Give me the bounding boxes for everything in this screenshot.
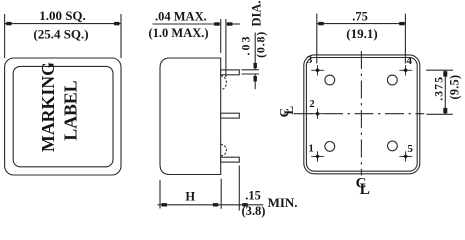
arrow H left <box>162 203 167 206</box>
svg-text:1.00 SQ.: 1.00 SQ. <box>39 8 86 23</box>
arrow .03 upper <box>254 63 257 68</box>
arrow 1.00 SQ left <box>6 22 11 25</box>
svg-text:L: L <box>281 106 296 115</box>
horizontal centerline <box>294 113 425 115</box>
dimension H extension line right <box>220 179 222 209</box>
pin 4 crosshair <box>399 65 412 75</box>
pin hole circle bottom-left <box>325 142 335 152</box>
dimension .75 line <box>317 23 406 25</box>
svg-text:.15: .15 <box>245 189 261 203</box>
dimension 1.00 SQ extension line right <box>120 14 122 58</box>
dimension 1.00 SQ line <box>5 23 121 25</box>
dimension .03 extension tick pin bottom <box>242 73 260 75</box>
arrow .04 right <box>227 22 232 25</box>
dimension H and .15 line <box>158 204 264 206</box>
hidden standoff arc above bottom pin <box>221 144 227 155</box>
arrow .04 left <box>214 22 219 25</box>
svg-text:.04 MAX.: .04 MAX. <box>155 10 207 24</box>
pin 5 crosshair <box>399 151 412 161</box>
pin hole circle bottom-right <box>388 141 398 151</box>
svg-text:(19.1): (19.1) <box>346 26 377 41</box>
svg-text:.75: .75 <box>352 9 368 23</box>
pin 1 crosshair <box>311 151 324 161</box>
dimension 1.00 SQ extension line left <box>4 14 6 58</box>
arrow .375 top <box>443 71 447 76</box>
dimension H extension line left <box>159 180 161 209</box>
dimension .04 MAX extension line (standoff) <box>225 19 227 77</box>
arrow .75 right <box>399 22 404 25</box>
side view body outline <box>160 58 221 175</box>
dimension .03 line upper segment <box>254 33 256 70</box>
top view package outer outline <box>5 58 121 175</box>
side view pin top <box>221 70 240 75</box>
svg-text:(9.5): (9.5) <box>448 75 462 100</box>
svg-text:1: 1 <box>308 143 314 155</box>
svg-text:5: 5 <box>407 143 413 155</box>
svg-text:(0.8): (0.8) <box>253 31 267 58</box>
dimension .04 MAX extension line (body face) <box>220 19 222 53</box>
dimension .75 extension line right <box>404 14 406 64</box>
arrow .15 <box>242 203 247 206</box>
bottom view package outer outline <box>304 55 420 174</box>
hidden standoff arc below top pin <box>221 76 227 90</box>
arrow .375 bottom <box>443 108 447 113</box>
dimension .75 extension line left <box>316 14 318 64</box>
svg-text:LABEL: LABEL <box>60 80 80 140</box>
arrow H right <box>213 203 218 206</box>
svg-text:L: L <box>360 181 370 198</box>
svg-text:(25.4 SQ.): (25.4 SQ.) <box>33 26 88 41</box>
arrow 1.00 SQ right <box>114 22 119 25</box>
arrow .75 left <box>318 22 323 25</box>
side view pin middle <box>221 113 240 118</box>
pin hole circle top-right <box>387 75 397 85</box>
svg-text:4: 4 <box>407 55 413 67</box>
bottom view package inner outline <box>306 58 417 172</box>
svg-text:.03: .03 <box>238 35 252 56</box>
svg-text:H: H <box>185 189 195 203</box>
pin 3 crosshair <box>311 65 324 75</box>
pin 2 crosshair <box>311 109 324 119</box>
svg-text:MIN.: MIN. <box>268 195 298 210</box>
svg-text:3: 3 <box>307 54 313 66</box>
svg-text:DIA.: DIA. <box>250 0 264 26</box>
pin hole circle top-left <box>325 75 335 85</box>
dimension .375 extension line top <box>426 69 453 71</box>
svg-text:MARKING: MARKING <box>38 62 58 152</box>
top view package inner outline (label area) <box>13 66 113 166</box>
svg-text:2: 2 <box>309 99 314 110</box>
side view pin bottom <box>221 157 240 162</box>
arrow .03 lower <box>254 76 257 81</box>
centerline symbol left (rotated) <box>276 106 296 118</box>
dimension .04 MAX tail right <box>226 23 240 25</box>
dimension .375 extension line bottom <box>427 113 453 115</box>
svg-text:(1.0 MAX.): (1.0 MAX.) <box>149 26 209 40</box>
vertical centerline <box>360 51 362 176</box>
dimension .04 MAX leader line left <box>153 23 221 25</box>
dimension .375 line <box>444 70 446 114</box>
dimension .03 extension tick pin top <box>242 69 260 71</box>
svg-text:(3.8): (3.8) <box>242 204 266 218</box>
dimension .15 extension line (pin tip) <box>238 166 240 211</box>
dimension .03 line lower segment <box>254 74 256 89</box>
svg-text:.375: .375 <box>433 76 445 101</box>
